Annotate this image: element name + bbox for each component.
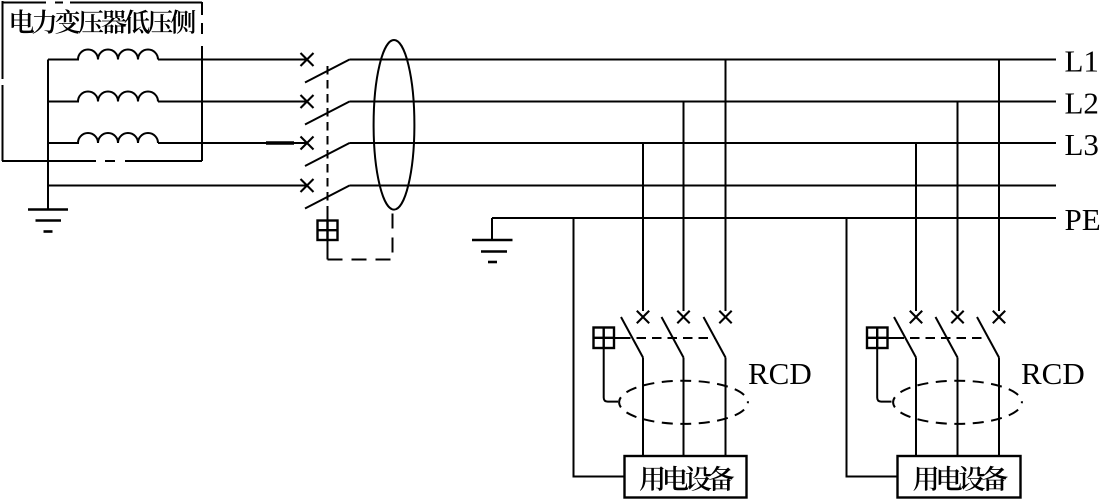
wire N main bus to right [350, 185, 1057, 187]
RCD2 trip wire with hook to toroid [877, 348, 891, 402]
wire RCD2 pole to equipment (L2) [957, 358, 959, 457]
wire RCD2 pole to equipment (L3) [915, 358, 917, 457]
svg-text:PE: PE [1065, 202, 1101, 237]
RCD2 toroid dashed ellipse [893, 381, 1022, 424]
disconnector QS pole L1: blade [305, 60, 350, 83]
wire RCD1 pole to equipment (L1) [725, 358, 727, 457]
transformer neutral bus wire [47, 60, 49, 210]
transformer dashed enclosure [2, 1, 202, 161]
wire drop from L1 to RCD2 pole [998, 60, 1000, 312]
RCD1 breaker pole blade (L1) [704, 317, 726, 358]
disconnector QS pole L3: blade [305, 143, 350, 166]
wire drop from L3 to RCD2 pole [915, 143, 917, 311]
RCD2 linkage dashed rod [888, 337, 895, 339]
disconnector QS pole L1: fixed contact x [301, 53, 314, 66]
equipment box 2 [898, 456, 1021, 498]
RCD1 toroid dashed ellipse [619, 381, 748, 424]
RCD1 breaker pole blade (L2) [662, 317, 684, 358]
wire PE drop 1 [574, 218, 625, 477]
QS trip unit square [318, 221, 338, 241]
equipment box 1 [625, 456, 747, 498]
wire L3 from winding to disconnector [158, 142, 307, 144]
svg-text:L2: L2 [1065, 86, 1099, 121]
RCD1 breaker pole contact x (L3) [637, 311, 649, 323]
svg-text:L1: L1 [1065, 44, 1099, 79]
RCD1 breaker pole contact x (L2) [677, 311, 689, 323]
wire L1 from winding to disconnector [158, 59, 307, 61]
wire RCD1 pole to equipment (L3) [642, 358, 644, 457]
label 用电设备 (1) [640, 466, 734, 491]
disconnector QS pole L3: fixed contact x [301, 137, 314, 150]
RCD2 trip unit square [867, 328, 888, 349]
RCD2 breaker pole blade (L3) [894, 317, 916, 358]
wire L1 main bus to right [350, 59, 1057, 61]
PE source ground electrode [472, 218, 513, 262]
RCD2 breaker pole contact x (L1) [993, 311, 1005, 323]
wire RCD1 pole to equipment (L2) [683, 358, 685, 457]
label 用电设备 (2) [913, 466, 1007, 491]
RCD1 trip unit square [594, 328, 615, 349]
RCD2 breaker pole contact x (L2) [951, 311, 963, 323]
wire L2 from winding to disconnector [158, 101, 307, 103]
transformer label 电力变压器低压侧 [12, 9, 196, 34]
disconnector QS pole L2: fixed contact x [301, 95, 314, 108]
wire drop from L2 to RCD2 pole [957, 102, 959, 312]
transformer winding W3 (L3 phase coil) [48, 133, 158, 143]
wire drop from L3 to RCD1 pole [642, 143, 644, 311]
transformer winding W2 (L2 phase coil) [48, 92, 158, 102]
svg-text:RCD: RCD [748, 356, 812, 391]
wire drop from L2 to RCD1 pole [683, 102, 685, 312]
RCD1 trip wire with hook to toroid [604, 348, 618, 402]
QS linkage dashed rod [327, 66, 329, 212]
svg-text:RCD: RCD [1021, 356, 1085, 391]
wire PE bus [492, 217, 1056, 219]
RCD1 linkage dashed rod [614, 337, 621, 339]
wire PE drop 2 [847, 218, 898, 477]
wire drop from L1 to RCD1 pole [725, 60, 727, 312]
transformer neutral ground [28, 210, 68, 232]
RCD2 breaker pole blade (L1) [977, 317, 999, 358]
wire RCD2 pole to equipment (L1) [998, 358, 1000, 457]
wire N from neutral bus to disconnector [48, 185, 307, 187]
RCD2 breaker pole blade (L2) [936, 317, 958, 358]
L3 heavy link mark [266, 141, 294, 144]
wire L3 main bus to right [350, 142, 1057, 144]
trip unit to CT dashed connection [327, 240, 329, 260]
RCD2 breaker pole contact x (L3) [910, 311, 922, 323]
svg-text:L3: L3 [1065, 127, 1099, 162]
RCD1 breaker pole contact x (L1) [719, 311, 731, 323]
wire L2 main bus to right [350, 101, 1057, 103]
disconnector QS pole N: blade [305, 186, 350, 209]
RCD1 breaker pole blade (L3) [621, 317, 643, 358]
disconnector QS pole N: fixed contact x [301, 179, 314, 192]
transformer winding W1 (L1 phase coil) [48, 50, 158, 60]
disconnector QS pole L2: blade [305, 102, 350, 125]
current transformer ellipse [374, 40, 415, 210]
